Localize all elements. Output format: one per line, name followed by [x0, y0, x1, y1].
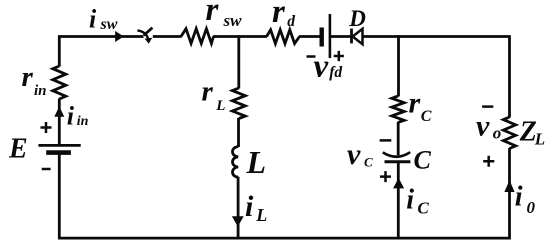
svg-text:in: in: [34, 83, 47, 99]
svg-text:i: i: [406, 185, 414, 216]
arrow i_0: [504, 180, 514, 192]
svg-text:v: v: [476, 110, 490, 143]
svg-text:r: r: [206, 0, 220, 28]
capacitor C flat plate: [385, 160, 411, 163]
switch arrowhead: [145, 38, 153, 44]
plus sign v_O: [483, 156, 494, 167]
svg-text:r: r: [409, 87, 421, 120]
svg-text:i: i: [515, 182, 523, 213]
svg-text:v: v: [347, 138, 361, 171]
wire r_d to battery: [299, 35, 321, 38]
svg-text:r: r: [22, 61, 34, 93]
svg-text:D: D: [348, 6, 366, 31]
diode D triangle: [353, 29, 363, 44]
svg-text:C: C: [421, 108, 432, 125]
svg-text:C: C: [414, 146, 432, 175]
svg-text:i: i: [245, 190, 254, 223]
svg-text:L: L: [534, 130, 545, 149]
arrow i_L: [232, 216, 244, 226]
svg-text:C: C: [417, 199, 429, 218]
resistor Z_L: [503, 117, 515, 149]
plus sign battery E: [41, 122, 52, 133]
svg-text:E: E: [8, 133, 28, 164]
battery E long plate: [38, 144, 80, 147]
battery E short plate: [46, 150, 71, 155]
wire battery to diode: [331, 35, 352, 38]
arrow i_sw: [115, 31, 124, 42]
battery v_fd short plate: [320, 28, 324, 47]
minus sign v_O: [482, 105, 493, 108]
svg-text:r: r: [272, 0, 286, 30]
svg-text:v: v: [314, 48, 329, 84]
svg-text:in: in: [77, 114, 89, 129]
switch motion arc: [137, 30, 148, 39]
resistor r_sw: [181, 29, 214, 44]
wire junction to middle branch: [237, 35, 240, 88]
wire left vertical middle: [58, 99, 61, 145]
capacitor C curved plate: [383, 152, 410, 157]
battery v_fd long plate: [329, 14, 332, 58]
wire junction to capacitor branch: [397, 35, 400, 96]
resistor r_L: [232, 88, 245, 119]
resistor r_C: [392, 96, 404, 122]
svg-text:r: r: [202, 76, 214, 108]
svg-text:d: d: [287, 13, 295, 30]
wire r_C to capacitor: [397, 122, 400, 155]
svg-text:sw: sw: [223, 11, 243, 30]
wire top-left corner and left vertical: [59, 37, 143, 67]
svg-text:i: i: [89, 4, 97, 33]
svg-text:C: C: [364, 154, 373, 169]
svg-text:fd: fd: [329, 64, 342, 81]
switch blade: [144, 28, 153, 36]
wire diode to top-right corner down to Z_L: [363, 37, 510, 118]
svg-text:L: L: [246, 144, 267, 180]
minus sign battery E: [42, 168, 51, 171]
wire left vertical bottom, bottom wire, right vertical bottom: [59, 148, 509, 238]
wire capacitor to bottom: [397, 162, 400, 238]
wire between r_sw and r_d: [213, 35, 267, 38]
wire r_L to inductor: [237, 118, 240, 147]
minus sign v_C: [380, 139, 392, 142]
arrow i_C: [393, 178, 404, 189]
svg-text:sw: sw: [100, 16, 118, 33]
svg-text:i: i: [67, 102, 75, 131]
svg-text:L: L: [255, 205, 267, 225]
minus sign v_fd: [307, 55, 316, 58]
svg-text:L: L: [215, 98, 225, 114]
wire inductor to bottom: [237, 177, 240, 238]
svg-text:0: 0: [527, 198, 536, 217]
resistor r_in: [53, 66, 66, 99]
inductor L: [233, 147, 239, 178]
svg-text:o: o: [493, 124, 502, 143]
wire top after switch: [153, 35, 182, 38]
arrow i_in: [54, 106, 64, 116]
plus sign v_fd: [334, 51, 344, 61]
resistor r_d: [267, 30, 300, 44]
plus sign v_C: [380, 171, 391, 182]
diode D bar: [350, 29, 353, 44]
